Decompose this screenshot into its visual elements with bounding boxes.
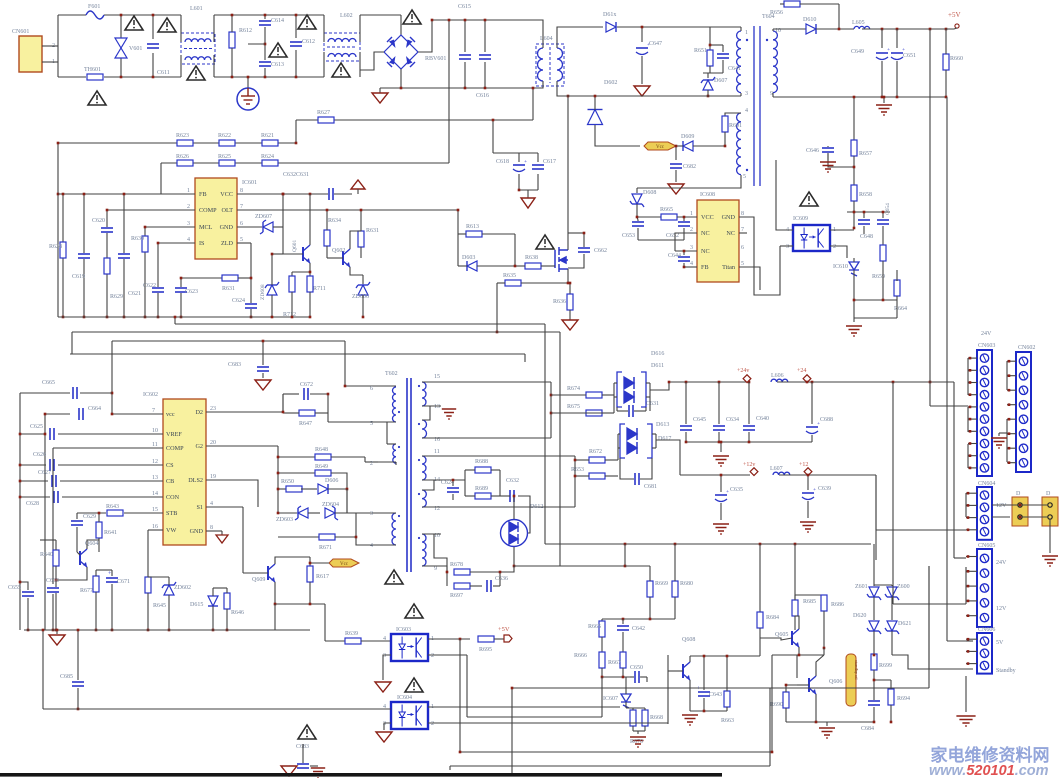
wire [428, 722, 668, 724]
svg-text:Z601: Z601 [855, 584, 868, 590]
diode D609 [683, 141, 693, 151]
wire [707, 73, 709, 78]
svg-text:C684: C684 [861, 726, 874, 732]
junction [231, 14, 234, 17]
junction [883, 96, 886, 99]
svg-text:D: D [1046, 491, 1051, 497]
junction [892, 381, 895, 384]
wire [646, 382, 650, 384]
svg-text:C672: C672 [300, 382, 313, 388]
svg-text:C623: C623 [185, 289, 198, 295]
wire [633, 730, 645, 732]
wire [853, 156, 855, 185]
resistor R623 [177, 140, 193, 146]
svg-text:L601: L601 [190, 6, 203, 12]
svg-text:D: D [1016, 491, 1021, 497]
wire [282, 194, 284, 254]
wire [797, 684, 809, 686]
warning triangle [158, 18, 176, 32]
wire [175, 323, 545, 325]
wire [518, 153, 520, 162]
wire [614, 396, 617, 398]
wire [862, 28, 946, 30]
wire [428, 638, 470, 640]
wire [718, 432, 720, 442]
wire [966, 600, 977, 602]
wire [780, 245, 793, 247]
wire [494, 638, 504, 640]
inductor L605 [854, 26, 870, 29]
svg-text:C616: C616 [476, 93, 489, 99]
wire [464, 62, 466, 88]
junction [295, 76, 298, 79]
wire [20, 433, 46, 435]
wire [20, 392, 70, 394]
resistor R630 [142, 236, 148, 252]
svg-text:V601: V601 [129, 46, 142, 52]
junction [57, 193, 60, 196]
wire [724, 132, 726, 146]
wire [616, 407, 618, 411]
svg-text:6: 6 [240, 221, 243, 227]
junction [52, 629, 55, 632]
svg-text:+: + [887, 47, 890, 53]
capacitor C627 [51, 474, 57, 488]
wire [638, 239, 684, 241]
wire [568, 232, 584, 234]
wire [76, 513, 78, 519]
wire [748, 432, 750, 442]
mosfet Q601b [555, 247, 568, 272]
ground arrow [521, 198, 535, 208]
capacitor C614 [258, 20, 272, 26]
svg-text:R695: R695 [479, 647, 492, 653]
svg-text:5: 5 [240, 237, 243, 243]
capacitor [634, 472, 640, 486]
junction [27, 629, 30, 632]
svg-text:R640: R640 [40, 552, 53, 558]
junction [448, 19, 451, 22]
capacitor C683 [256, 366, 270, 372]
wire [120, 15, 122, 38]
wire [291, 292, 293, 317]
warning triangle [298, 725, 316, 739]
wire [966, 615, 977, 617]
wire [96, 569, 112, 571]
resistor R699 [871, 654, 877, 670]
wire [683, 217, 685, 221]
junction [111, 629, 114, 632]
capacitor C618 [512, 159, 527, 172]
wire [237, 209, 458, 211]
diode ZD606 [356, 282, 370, 295]
svg-text:9: 9 [434, 566, 437, 572]
wire [158, 242, 195, 244]
junction [532, 87, 535, 90]
svg-text:2: 2 [187, 204, 190, 210]
junction [969, 418, 972, 421]
wire [602, 618, 675, 620]
wire [652, 447, 656, 449]
wire [458, 233, 466, 235]
capacitor C624 [446, 487, 460, 493]
junction [748, 441, 751, 444]
capacitor C684 [867, 700, 881, 706]
core T602 [407, 378, 411, 572]
svg-text:IC607: IC607 [603, 696, 618, 702]
capacitor C613 [258, 61, 272, 67]
wire strap [1006, 419, 1008, 462]
wire [355, 513, 357, 537]
capacitor C648 [857, 219, 871, 225]
junction [1008, 374, 1011, 377]
junction [969, 369, 972, 372]
svg-text:VREF: VREF [166, 431, 182, 438]
wire [718, 382, 720, 424]
ground [562, 320, 578, 330]
wire [1007, 360, 1016, 362]
svg-text:GND: GND [220, 224, 234, 231]
power arrow [351, 180, 365, 189]
svg-text:L604: L604 [540, 36, 553, 42]
svg-text:1: 1 [690, 211, 693, 217]
svg-text:20: 20 [210, 440, 216, 446]
junction [675, 145, 678, 148]
wire [968, 357, 977, 359]
wire [854, 317, 897, 319]
wire [685, 382, 687, 424]
wire [221, 531, 223, 535]
wire [882, 226, 884, 245]
svg-text:C644: C644 [668, 253, 681, 259]
junction [967, 614, 970, 617]
wire [726, 707, 728, 711]
resistor R694 [888, 689, 894, 705]
wire [513, 547, 515, 566]
wire [601, 619, 603, 621]
wire [617, 434, 619, 460]
wire [595, 125, 640, 146]
junction [622, 618, 625, 621]
junction [853, 211, 856, 214]
svg-text:G2: G2 [195, 443, 203, 450]
ground IC602 [216, 535, 228, 543]
resistor R668 [630, 710, 636, 726]
wire [147, 530, 149, 573]
resistor R625 [219, 160, 235, 166]
connector CN603 [977, 350, 992, 476]
junction [19, 496, 22, 499]
wire [58, 14, 86, 16]
svg-text:R665: R665 [660, 207, 673, 213]
wire [289, 765, 296, 767]
warning triangle [298, 15, 316, 29]
wire [637, 217, 638, 220]
power +24 d2 [803, 375, 811, 383]
svg-text:24V: 24V [981, 331, 992, 337]
svg-text:D61x: D61x [603, 12, 616, 18]
wire [243, 572, 268, 574]
chassis ground [713, 456, 729, 466]
wire [360, 247, 362, 258]
svg-text:R660: R660 [950, 56, 963, 62]
capacitor C611 [146, 43, 160, 49]
svg-text:R648: R648 [315, 447, 328, 453]
wire [772, 29, 774, 31]
wire [248, 43, 265, 45]
junction [853, 299, 856, 302]
wire [359, 15, 361, 42]
svg-text:ZD606: ZD606 [352, 294, 369, 300]
wire [214, 76, 324, 78]
wire [302, 758, 304, 763]
ground [281, 766, 297, 776]
wire [826, 722, 828, 726]
junction [55, 629, 58, 632]
wire [853, 201, 855, 228]
wire [689, 656, 691, 662]
wire [499, 470, 501, 496]
svg-text:15: 15 [152, 507, 158, 513]
polarity dots T602 [398, 411, 400, 413]
wire [107, 209, 195, 211]
wire [622, 632, 624, 652]
chassis ground [311, 768, 325, 778]
wire [710, 44, 723, 46]
wire [683, 251, 685, 255]
choke L602 [324, 33, 360, 61]
svg-text:12V: 12V [996, 606, 1007, 612]
wire [551, 394, 586, 396]
wire [720, 475, 722, 492]
wire [53, 447, 163, 449]
wire [496, 283, 498, 332]
svg-text:CB: CB [166, 478, 174, 485]
junction [362, 316, 365, 319]
capacitor C635 [714, 489, 729, 502]
svg-text:R617: R617 [316, 574, 329, 580]
svg-text:R636: R636 [553, 299, 566, 305]
wire [646, 396, 650, 398]
resistor R672 [589, 457, 605, 463]
junction [724, 145, 727, 148]
wire [328, 488, 347, 490]
wire [422, 455, 441, 457]
wire long vertical B [946, 97, 948, 641]
resistor R634 [324, 230, 330, 246]
wire [557, 27, 572, 48]
warning triangle [125, 16, 143, 30]
svg-text:D612: D612 [530, 504, 543, 510]
svg-text:Vcc: Vcc [656, 145, 665, 150]
svg-text:6: 6 [370, 386, 373, 392]
junction [513, 495, 516, 498]
capacitor [509, 489, 515, 503]
resistor R622 [219, 140, 235, 146]
transistor Q604 [80, 549, 87, 567]
wire [1007, 462, 1016, 464]
junction [309, 271, 312, 274]
wire [345, 385, 378, 387]
wire [786, 685, 797, 692]
wire long vertical A [929, 29, 931, 406]
wire [52, 594, 54, 630]
wire [441, 566, 447, 572]
wire [104, 14, 181, 16]
junction [807, 474, 810, 477]
svg-text:+12v: +12v [743, 462, 755, 468]
junction [44, 433, 47, 436]
wire [181, 277, 238, 279]
wire [148, 529, 163, 531]
capacitor C671 [105, 577, 119, 583]
wire [465, 469, 475, 471]
diode D608 [630, 194, 644, 207]
resistor R643 [107, 510, 123, 516]
svg-text:R669: R669 [655, 581, 668, 587]
wire [632, 708, 634, 710]
junction [569, 282, 572, 285]
junction [144, 226, 147, 229]
svg-text:R699: R699 [879, 663, 892, 669]
svg-text:+5V: +5V [948, 11, 961, 19]
svg-text:D2: D2 [195, 409, 203, 416]
junction [309, 562, 312, 565]
junction [19, 480, 22, 483]
svg-text:R658: R658 [859, 192, 872, 198]
wire [98, 513, 100, 522]
wire [448, 20, 450, 163]
wire [773, 96, 946, 98]
wire [567, 269, 569, 283]
svg-text:C643: C643 [709, 692, 722, 698]
wire [157, 243, 159, 317]
wire [873, 707, 875, 722]
svg-text:COMP: COMP [199, 207, 217, 214]
junction [967, 650, 970, 653]
wire [106, 210, 108, 317]
wire [641, 676, 647, 678]
resistor R628 [60, 242, 66, 258]
wire [966, 570, 977, 572]
dual diode D612 [501, 520, 528, 547]
svg-text:NC: NC [701, 248, 710, 255]
wire [302, 744, 304, 758]
wire [278, 488, 287, 490]
wire [148, 576, 169, 578]
wire [637, 228, 639, 240]
wire [212, 588, 214, 596]
wire [422, 381, 441, 383]
diode D603 [467, 261, 477, 271]
junction [309, 603, 312, 606]
diode Z600 [885, 587, 899, 600]
wire [400, 69, 402, 88]
wire [968, 406, 977, 408]
junction [180, 277, 183, 280]
wire [295, 15, 297, 38]
wire [828, 146, 854, 167]
svg-text:4: 4 [187, 237, 190, 243]
diode ZD603 [295, 506, 308, 520]
wire [684, 266, 697, 268]
diode D602 [588, 110, 603, 125]
resistor R674 [586, 392, 602, 398]
wire [214, 14, 324, 16]
wire [112, 340, 345, 342]
wire [45, 413, 70, 415]
warning triangle [405, 678, 423, 692]
svg-text:C681: C681 [644, 484, 657, 490]
wire [863, 226, 865, 234]
junction [484, 87, 487, 90]
junction [250, 316, 253, 319]
wire [272, 253, 283, 255]
wire [656, 440, 680, 475]
svg-text:Q605: Q605 [775, 632, 788, 638]
wire [380, 87, 533, 89]
junction [759, 543, 762, 546]
svg-text:R624: R624 [261, 154, 274, 160]
junction [120, 76, 123, 79]
wire [572, 26, 603, 28]
chassis ground [630, 737, 646, 747]
resistor R690 [783, 692, 789, 708]
svg-text:C653: C653 [622, 233, 635, 239]
wire [365, 461, 378, 463]
wire [497, 282, 505, 284]
wire [275, 603, 325, 605]
svg-text:D621: D621 [898, 621, 911, 627]
resistor R695 [478, 636, 494, 642]
wire [617, 410, 628, 412]
capacitor C620 [100, 227, 114, 233]
svg-text:R612: R612 [239, 28, 252, 34]
wire [111, 341, 113, 414]
wire [946, 28, 957, 29]
wire [335, 536, 356, 538]
wire [378, 461, 396, 463]
wire [95, 592, 97, 630]
svg-text:R649: R649 [315, 464, 328, 470]
svg-text:L605: L605 [852, 20, 865, 26]
wire [853, 270, 855, 318]
svg-text:CON: CON [166, 494, 180, 501]
resistor R689 [475, 493, 491, 499]
wire [212, 606, 214, 630]
wire [361, 640, 391, 642]
wire [262, 341, 264, 365]
svg-text:19: 19 [210, 474, 216, 480]
svg-text:T602: T602 [385, 371, 398, 377]
IC IC608 [697, 200, 739, 282]
wire [674, 597, 676, 619]
wire [120, 58, 122, 77]
transistor Q605 [792, 629, 799, 647]
wire [533, 81, 543, 88]
wire [467, 716, 602, 718]
svg-text:www.520101.com: www.520101.com [929, 763, 1049, 778]
wire [992, 504, 1018, 506]
svg-text:GND: GND [190, 528, 204, 535]
diode ZD604 [325, 506, 338, 520]
wire [111, 570, 113, 576]
junction [718, 441, 721, 444]
svg-text:C685: C685 [60, 674, 73, 680]
wire [77, 688, 79, 709]
diode ZD607 [260, 220, 273, 234]
junction [231, 76, 234, 79]
